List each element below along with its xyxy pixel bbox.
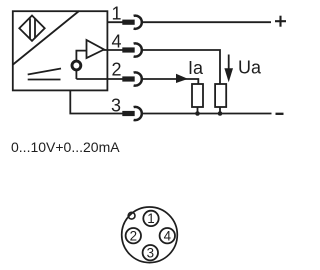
junction dot A	[195, 111, 200, 116]
svg-text:3: 3	[111, 96, 121, 116]
svg-text:2: 2	[111, 60, 121, 80]
wire pin 1 (to +)	[107, 21, 123, 23]
svg-text:3: 3	[147, 245, 154, 260]
svg-text:1: 1	[147, 211, 154, 226]
diagonal divider	[13, 11, 79, 65]
Ua voltage arrow	[228, 55, 230, 71]
wire: node down to pin2 line	[75, 70, 77, 79]
Ia current arrow	[176, 74, 188, 83]
analog ramp symbol	[28, 69, 61, 80]
wire pin 3 (to -)	[70, 90, 123, 113]
load resistor R1 (Ia)	[192, 84, 203, 107]
inductive sensor symbol D1	[19, 16, 44, 41]
pin 1 hole	[143, 211, 158, 226]
connector face view	[122, 207, 178, 263]
wire: node to op-amp input	[76, 51, 86, 61]
connector body circle	[122, 207, 178, 263]
pin 2 hole	[126, 228, 141, 243]
svg-text:4: 4	[111, 32, 121, 52]
pin 3 hole	[143, 245, 158, 260]
sensor box	[13, 11, 108, 90]
wire pin 2	[76, 78, 123, 80]
pin 4 hole	[160, 228, 175, 243]
junction dot B	[218, 111, 223, 116]
op-amp A1	[87, 40, 105, 58]
output node circle	[72, 61, 81, 70]
connector contact pin 3	[123, 107, 142, 120]
wire pin 4	[104, 49, 124, 51]
svg-text:0...10V+0...20mA: 0...10V+0...20mA	[11, 139, 120, 155]
Ua arrowhead	[224, 68, 233, 82]
load resistor R2 (Ua)	[215, 84, 226, 107]
svg-text:4: 4	[164, 228, 172, 243]
connector contact pin 2	[123, 72, 142, 85]
svg-text:Ia: Ia	[188, 58, 204, 78]
svg-text:2: 2	[130, 228, 137, 243]
svg-text:1: 1	[111, 4, 121, 24]
keyway notch	[128, 212, 135, 219]
svg-text:Ua: Ua	[238, 58, 262, 78]
terminal -	[276, 113, 284, 115]
connector contact pin 4	[123, 43, 142, 56]
terminal +	[275, 16, 286, 27]
connector contact pin 1	[123, 16, 142, 29]
